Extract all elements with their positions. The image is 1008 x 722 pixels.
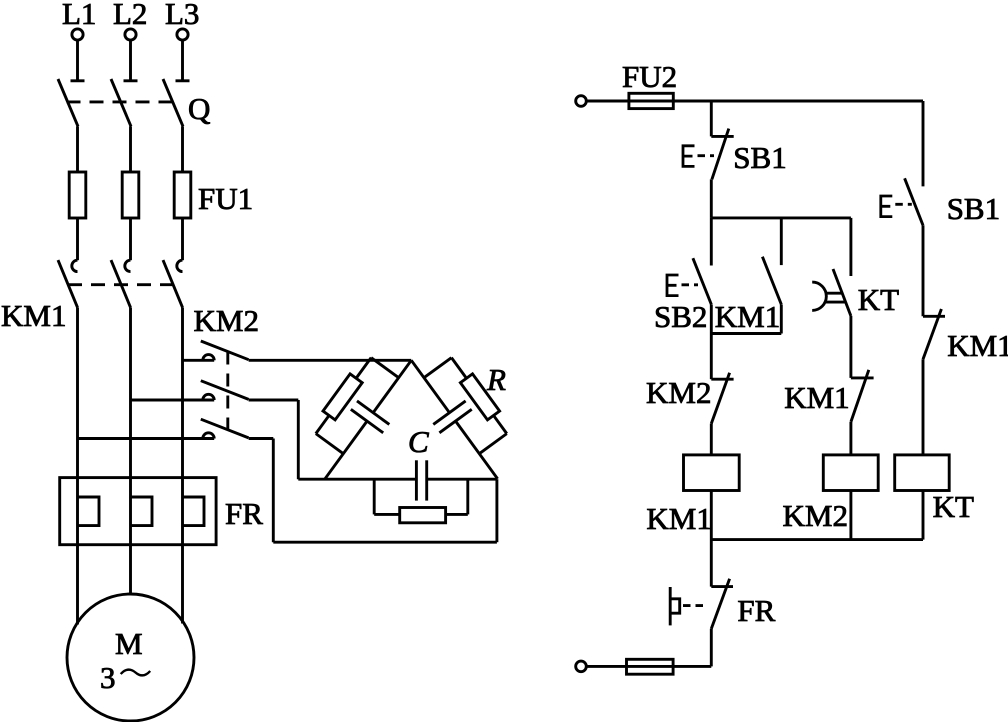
svg-text:KT: KT: [858, 282, 899, 317]
svg-text:L3: L3: [165, 0, 199, 31]
contactor KM1 link (dashed): [68, 283, 176, 286]
fuse FU1 pole 3: [174, 172, 191, 218]
svg-text:KM1: KM1: [784, 380, 849, 415]
svg-text:KM2: KM2: [194, 303, 259, 338]
svg-text:Q: Q: [188, 91, 210, 126]
wire control top: [586, 100, 923, 103]
fuse FU1 pole 2: [122, 172, 139, 218]
motor M 3~: [67, 594, 194, 721]
node L1 terminal: [62, 0, 96, 40]
svg-text:L2: L2: [113, 0, 147, 31]
pushbutton SB1 (right): [905, 178, 923, 316]
svg-text:KM2: KM2: [646, 375, 711, 410]
contact KT delayed: [833, 218, 851, 378]
thermal relay FR box: [60, 478, 216, 545]
wire FR to motor pole 1: [76, 545, 79, 625]
contactor KM2 pole 1 (top row): [183, 341, 249, 360]
delta left side R-C branch: [291, 336, 427, 491]
FR thermal actuator symbol: [670, 587, 708, 625]
contact KM1 NC interlock (col3): [851, 370, 874, 455]
contact KM2 NC interlock: [711, 334, 733, 455]
SB1 actuator E and dashed link: [683, 146, 714, 167]
svg-text:FU1: FU1: [198, 181, 253, 216]
svg-text:KM2: KM2: [783, 498, 848, 533]
svg-text:SB1: SB1: [733, 140, 786, 175]
delta right side R-C branch, resistor R: [395, 336, 531, 491]
wire FR to motor pole 3: [181, 545, 184, 624]
wire fuse to KM1 pole 2: [129, 218, 132, 260]
node control top terminal: [576, 96, 587, 107]
svg-text:C: C: [408, 424, 429, 459]
svg-text:KM1: KM1: [1, 298, 66, 333]
svg-text:R: R: [486, 362, 506, 397]
contactor KM1 main pole 2: [111, 260, 131, 478]
wire fuse to KM1 pole 3: [181, 218, 184, 260]
FR heater element pole 2: [131, 478, 153, 545]
contact KM1 NC (col4): [923, 309, 945, 455]
svg-text:KM1: KM1: [715, 299, 780, 334]
FR heater element pole 3: [183, 478, 205, 545]
svg-text:SB1: SB1: [947, 191, 1000, 226]
contact FR NC (control): [711, 579, 733, 667]
switch Q pole 2: [111, 79, 138, 172]
coil KM2: [823, 455, 878, 491]
svg-text:KM1: KM1: [646, 501, 711, 536]
wire col4 drop: [922, 101, 925, 186]
svg-text:L1: L1: [62, 0, 96, 31]
switch Q pole 3: [163, 79, 190, 172]
svg-text:SB2: SB2: [654, 299, 707, 334]
wire below KM2 coil: [849, 491, 852, 540]
svg-text:KT: KT: [933, 489, 974, 524]
wire L3 lead: [181, 40, 184, 81]
SB1 right actuator E and dashed link: [881, 196, 912, 217]
node L3 terminal: [165, 0, 199, 40]
wire SB2/KM1 merge: [711, 332, 781, 335]
FR heater element pole 1: [78, 478, 100, 545]
wire fuse to KM1 pole 1: [76, 218, 79, 260]
wire L1 lead: [76, 40, 79, 81]
contactor KM2 link (dashed): [226, 352, 229, 431]
svg-text:FR: FR: [737, 593, 775, 628]
wire below KT coil: [922, 491, 925, 540]
node L2 terminal: [113, 0, 147, 40]
svg-text:FU2: FU2: [622, 59, 677, 94]
svg-text:M: M: [115, 626, 143, 661]
switch Q pole 1: [58, 79, 85, 172]
wire KM2 row3 to delta lower loop: [249, 439, 497, 543]
pushbutton SB2 (NO start): [693, 218, 711, 334]
contact KM1 aux NO (self hold): [762, 218, 781, 334]
delta base: wire, capacitor C plates: [298, 460, 497, 500]
fuse FU1 pole 1: [69, 172, 86, 218]
coil KT: [895, 455, 950, 491]
wire control bottom: [586, 665, 711, 668]
wire L2 lead: [129, 40, 132, 81]
switch Q link (dashed): [67, 100, 176, 103]
wire below KM1 coil: [710, 491, 713, 587]
SB2 actuator E and dashed link: [667, 275, 698, 296]
coil KM1: [684, 455, 740, 491]
fuse FU2: [629, 93, 673, 108]
wire bottom bus of coils: [711, 538, 923, 541]
wire row A: [711, 216, 851, 219]
wire KM2 row1 to delta apex: [249, 359, 412, 362]
svg-text:3: 3: [100, 660, 116, 695]
wire KM2 row2 to delta base: [249, 400, 299, 479]
contactor KM2 pole 3 (bottom row): [78, 419, 249, 438]
node control bottom terminal: [576, 661, 587, 672]
fuse bottom: [627, 659, 674, 674]
contactor KM2 pole 2 (middle row): [131, 381, 249, 400]
KT delay cup symbol: [812, 282, 845, 310]
svg-text:KM1: KM1: [947, 328, 1008, 363]
wire FR to motor pole 2: [129, 545, 132, 595]
contactor KM1 main pole 1: [58, 260, 78, 478]
pushbutton SB1 (NC stop, left): [711, 129, 733, 218]
delta base parallel resistor: [374, 479, 468, 523]
contactor KM1 main pole 3: [163, 260, 183, 478]
svg-text:FR: FR: [225, 496, 263, 531]
wire col1 drop: [710, 101, 713, 136]
